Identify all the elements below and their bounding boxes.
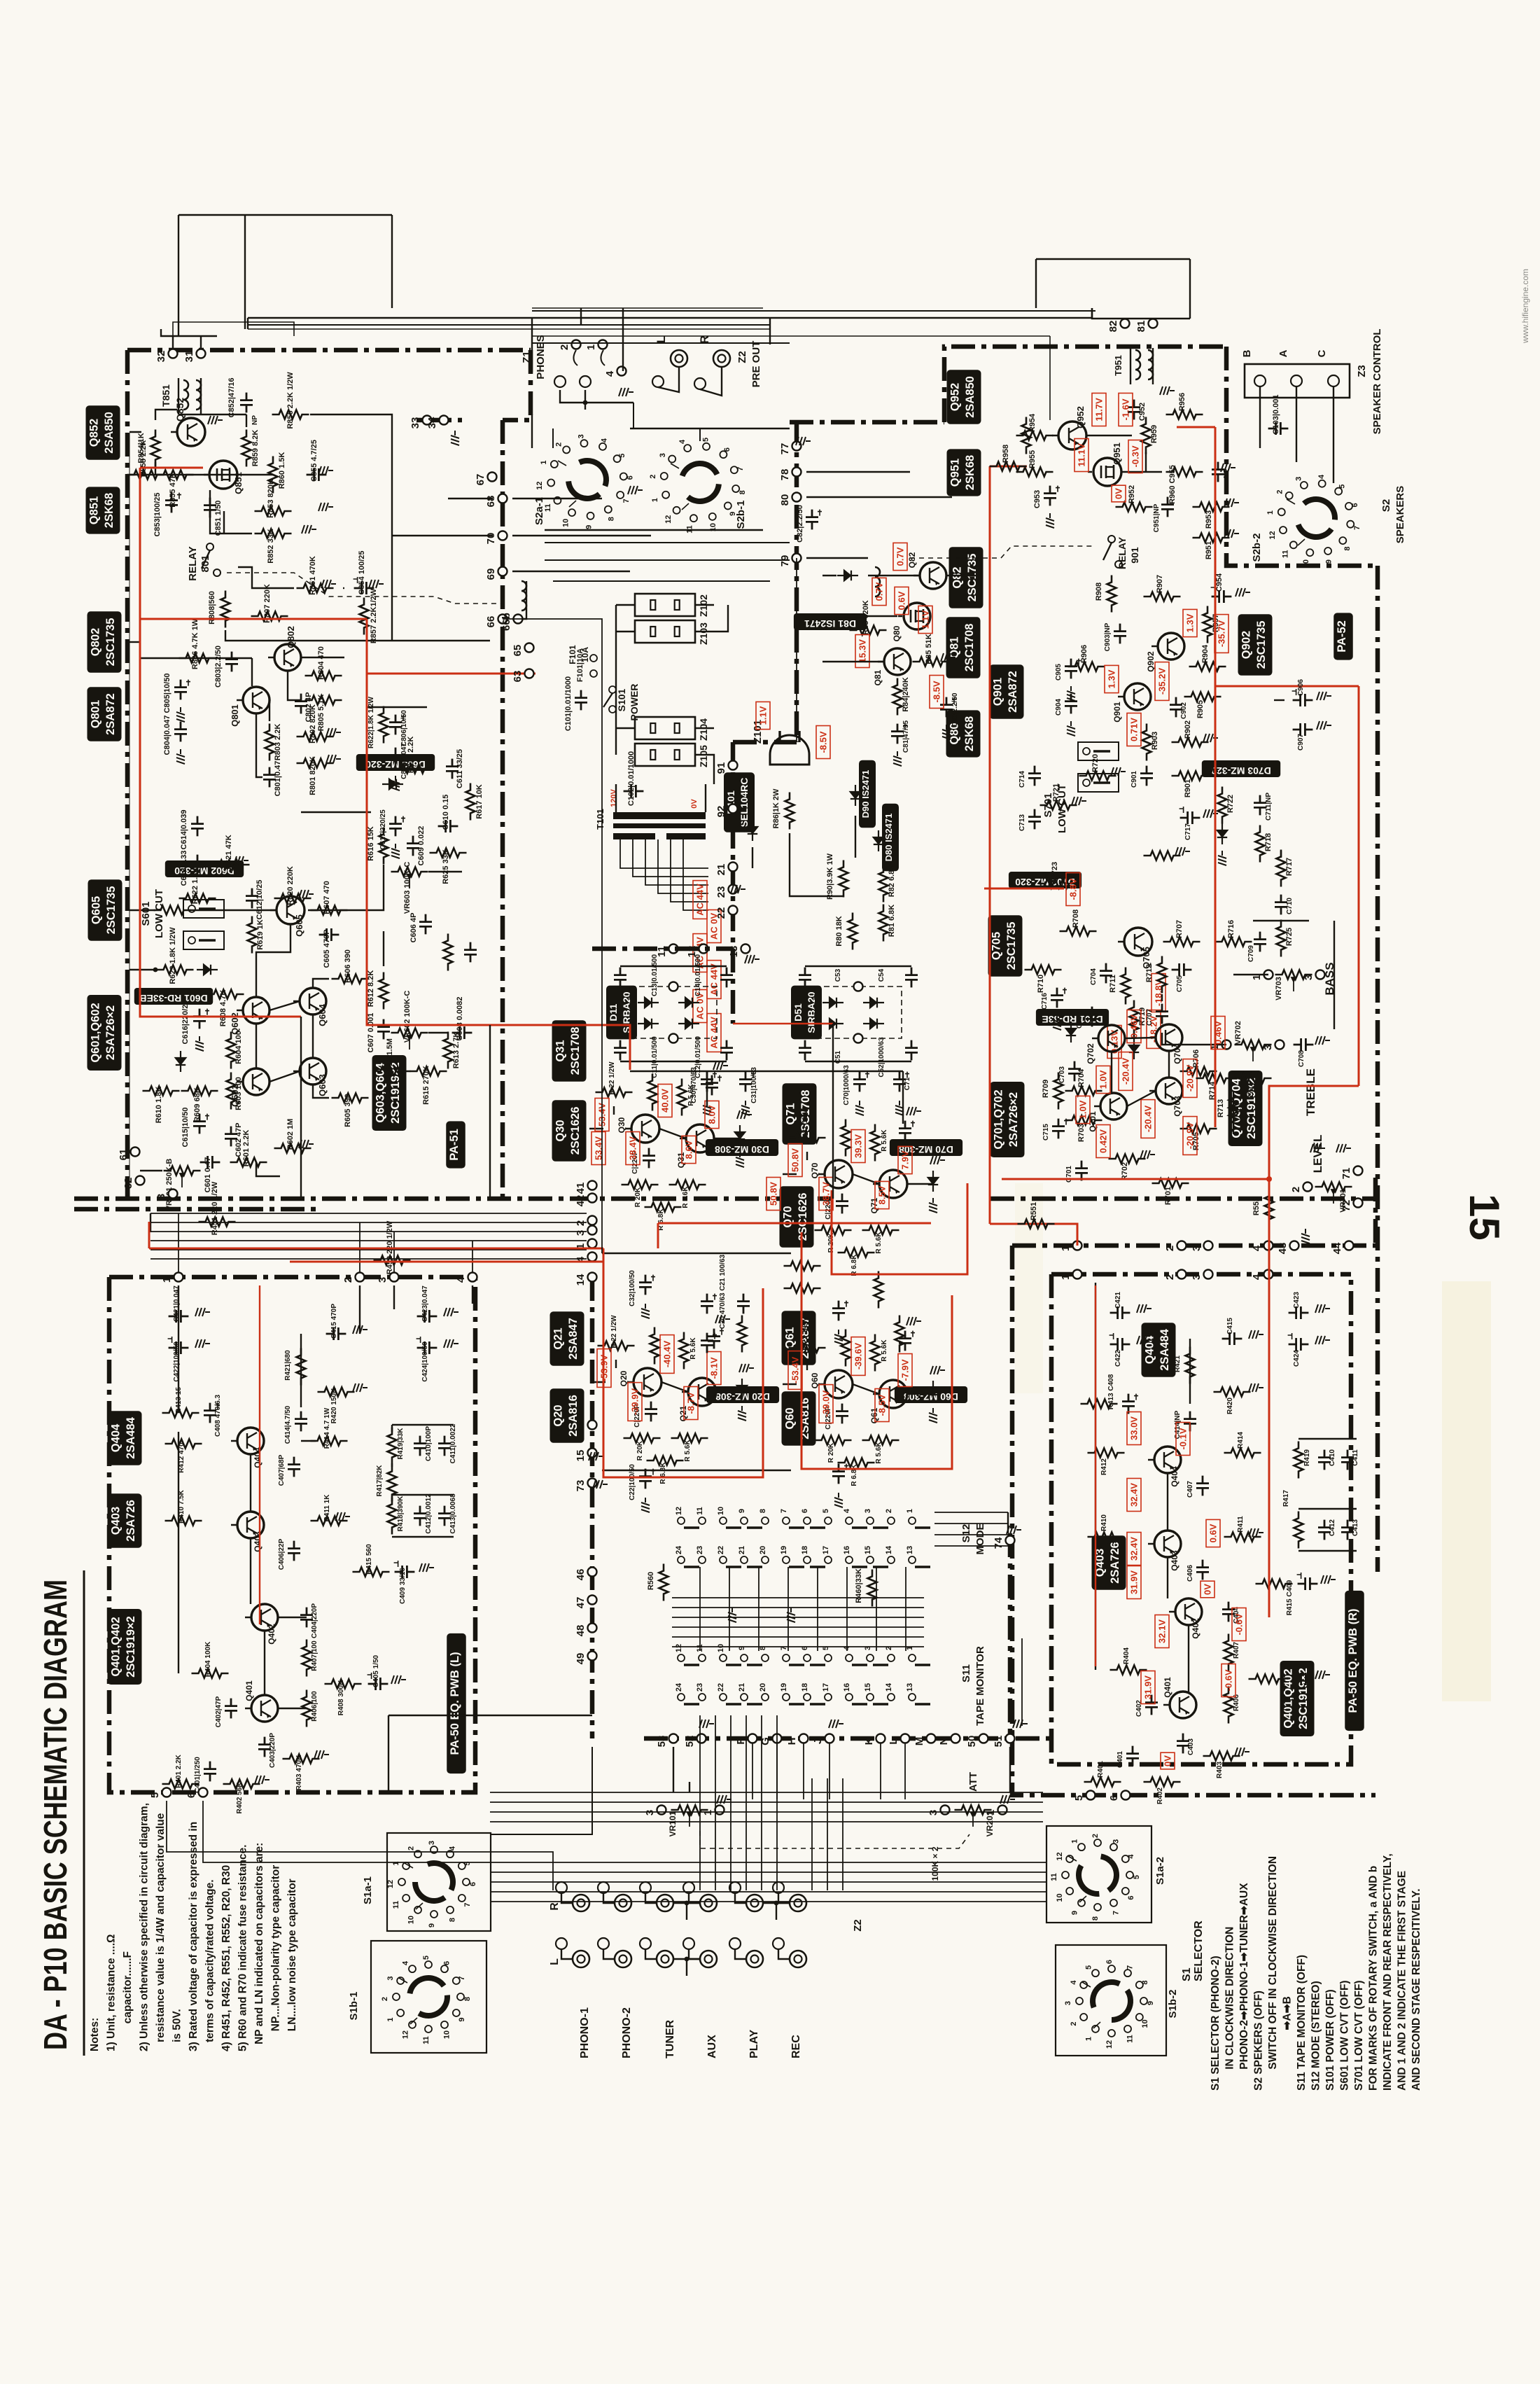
ground (1203, 767, 1218, 776)
svg-text:S12 MODE (STEREO): S12 MODE (STEREO) (1310, 1981, 1322, 2091)
wire bus rotary link2 (491, 1891, 1046, 1892)
resistor R402 56K (223, 1780, 260, 1789)
red trace (733, 1023, 833, 1024)
svg-text:IN CLOCKWISE DIRECTION: IN CLOCKWISE DIRECTION (1224, 1927, 1236, 2070)
bridge AC pin (854, 982, 863, 991)
svg-text:2SC1626: 2SC1626 (797, 1193, 809, 1241)
svg-text:C422: C422 (1114, 1350, 1122, 1367)
svg-text:10: 10 (1056, 1893, 1064, 1902)
capacitor C 0.01/500 (614, 1040, 626, 1061)
capacitor C807 0.047 (389, 748, 402, 768)
capacitor C21 100/63 (701, 1294, 713, 1314)
capacitor C 4.7/50 (899, 1121, 911, 1141)
svg-text:22: 22 (717, 1683, 725, 1692)
capacitor C404 220P (300, 1608, 313, 1628)
svg-text:6: 6 (1127, 1895, 1135, 1899)
capacitor C611 33/25 (446, 759, 458, 779)
wire pin drop (829, 1743, 830, 1799)
wire (343, 587, 344, 589)
wire pin drop (880, 1743, 881, 1799)
svg-text:11: 11 (1126, 2035, 1135, 2043)
svg-text:3: 3 (1112, 1839, 1121, 1843)
svg-text:1: 1 (386, 2017, 395, 2021)
svg-text:TAPE MONITOR: TAPE MONITOR (974, 1646, 986, 1726)
wire left rail R (1095, 1283, 1096, 1670)
svg-text:S2a-1: S2a-1 (533, 497, 545, 525)
svg-text:R956: R956 (1178, 393, 1186, 411)
diode D701 RD-33 zener (1066, 1022, 1076, 1043)
transistor Q801 (243, 687, 269, 713)
svg-text:capacitor......F: capacitor......F (122, 1951, 134, 2023)
svg-text:Q31: Q31 (554, 1040, 566, 1061)
svg-text:11: 11 (1282, 550, 1290, 558)
capacitor C405 1/50 (368, 1678, 388, 1690)
svg-text:-39.9V: -39.9V (630, 1388, 640, 1416)
svg-text:20: 20 (759, 1546, 767, 1554)
svg-text:C607 0.001: C607 0.001 (367, 1013, 375, 1053)
ground (444, 1308, 458, 1316)
resistor R 22 1/2W (598, 1341, 635, 1351)
capacitor C30 470/63 (701, 1072, 713, 1092)
svg-text:R414 4.7 1W: R414 4.7 1W (323, 1407, 331, 1449)
resistor R551 (1018, 1220, 1055, 1229)
ground (906, 1107, 921, 1115)
relay RELAY 801 (206, 543, 213, 550)
ground (728, 1608, 736, 1622)
ground (234, 856, 248, 865)
capacitor C407 (1196, 1476, 1209, 1496)
svg-text:2) Unless otherwise specified: 2) Unless otherwise specified in circuit… (139, 1803, 150, 2051)
PLAY L R jack (746, 1951, 763, 1967)
ground (703, 1101, 711, 1115)
voltage callout 8.6V (682, 1136, 696, 1163)
TUNER/AUX R R jack (657, 1895, 673, 1911)
diode D81 diode (837, 571, 858, 580)
voltage callout -39.0V (819, 1385, 833, 1423)
ground (302, 525, 316, 534)
resistor R702 (1109, 1155, 1146, 1164)
svg-text:R959: R959 (1150, 425, 1158, 443)
svg-text:82: 82 (1107, 321, 1119, 333)
svg-text:C80|2.2/50: C80|2.2/50 (951, 692, 959, 727)
ground (1321, 1575, 1336, 1584)
capacitor C421 (1110, 1306, 1130, 1319)
pin 70 (498, 531, 507, 541)
svg-text:-35.7V: -35.7V (1217, 620, 1227, 648)
wire gate bus (129, 474, 273, 475)
resistor R856 2.2K 1/2W (272, 410, 309, 419)
svg-text:11.1V: 11.1V (1077, 443, 1087, 467)
svg-text:R955: R955 (1028, 450, 1037, 468)
resistor R421 680 (297, 1348, 306, 1386)
svg-text:C851 1/50: C851 1/50 (214, 501, 223, 536)
svg-text:C803|2.2/50: C803|2.2/50 (214, 646, 223, 688)
pin 42 (588, 1194, 597, 1203)
svg-text:32: 32 (155, 351, 167, 363)
voltage callout 0.71V (1127, 713, 1141, 746)
voltage callout AC 44V (707, 1014, 721, 1052)
resistor VR101 (671, 1806, 708, 1815)
ground (739, 1364, 754, 1372)
svg-text:9: 9 (1071, 1911, 1079, 1915)
svg-text:0.7V: 0.7V (895, 547, 906, 566)
svg-text:78: 78 (779, 469, 791, 481)
svg-text:2SC1626: 2SC1626 (569, 1107, 582, 1155)
ground (444, 1339, 458, 1348)
ground (745, 955, 759, 963)
capacitor C 4.7/50 (706, 1075, 718, 1096)
svg-text:C807|0.047: C807|0.047 (400, 743, 408, 779)
svg-text:Q81: Q81 (873, 669, 883, 685)
svg-text:S1: S1 (1181, 1967, 1193, 1981)
resistor R614 1.5M (374, 1067, 411, 1076)
svg-text:R80 18K: R80 18K (835, 916, 843, 946)
svg-text:8: 8 (463, 1997, 472, 2001)
svg-text:31: 31 (183, 351, 195, 363)
wire (200, 336, 202, 349)
svg-text:Q401: Q401 (1163, 1677, 1172, 1698)
transistor Q60 (825, 1370, 853, 1398)
ground (1175, 847, 1190, 856)
svg-text:C424|100/50: C424|100/50 (421, 1341, 429, 1382)
svg-text:10: 10 (717, 1644, 725, 1652)
pin 32 (169, 349, 178, 358)
wire (561, 1893, 573, 1903)
resistor R618 2.2K (395, 765, 432, 774)
wire (167, 1801, 553, 1890)
svg-text:J: J (812, 1738, 824, 1744)
svg-text:8.6V: 8.6V (684, 1140, 694, 1159)
ground (731, 885, 745, 893)
capacitor C405 (1294, 1673, 1314, 1685)
pin F (748, 1734, 757, 1743)
wire (300, 1017, 302, 1199)
pin 3 (1204, 1241, 1213, 1250)
wire bus (150, 1222, 587, 1223)
svg-text:R906: R906 (1080, 645, 1088, 663)
svg-text:-20.9V: -20.9V (1185, 1122, 1196, 1150)
svg-text:R610 1.8K: R610 1.8K (155, 1087, 163, 1124)
ground (699, 1720, 714, 1728)
capacitor C608 0.0082 (452, 1026, 472, 1039)
resistor R606 390 (332, 975, 369, 984)
wire (729, 1567, 730, 1651)
svg-text:43: 43 (1277, 1243, 1289, 1255)
svg-text:R417|82K: R417|82K (376, 1465, 384, 1497)
capacitor C610 0.15 (438, 820, 458, 832)
wire (758, 1567, 759, 1651)
wire bus rotary link (490, 1801, 1043, 1803)
capacitor C410 100P (414, 1436, 426, 1456)
pin 53 (669, 1734, 678, 1743)
wire (428, 1032, 448, 1033)
svg-text:7: 7 (1126, 1965, 1135, 1970)
ground (855, 1101, 864, 1115)
svg-text:22: 22 (715, 907, 727, 919)
wire (672, 1636, 924, 1638)
svg-text:C704: C704 (1090, 968, 1098, 985)
voltage callout -8.5V (930, 676, 944, 709)
wire (689, 1782, 690, 1792)
svg-text:S701 LOW CVT (OFF): S701 LOW CVT (OFF) (1353, 1980, 1365, 2091)
svg-text:1.3V: 1.3V (1185, 613, 1196, 632)
wire (790, 833, 843, 896)
terminal block Z3 (1245, 364, 1350, 398)
svg-text:Z1: Z1 (521, 351, 533, 363)
resistor R604 100 (227, 1032, 236, 1069)
ground (1203, 734, 1218, 742)
resistor R403 (1203, 1752, 1240, 1761)
pin 1 (598, 340, 608, 349)
svg-text:R 20K: R 20K (634, 1187, 642, 1207)
pin 68 (498, 494, 507, 503)
svg-text:11: 11 (422, 2036, 430, 2044)
transistor Q902 (1158, 633, 1184, 660)
voltage callout 50.8V (766, 1178, 780, 1211)
pin 72 (1354, 1199, 1363, 1208)
wire (1274, 699, 1284, 701)
capacitor C801 0.47 (263, 767, 276, 788)
resistor R902 (1172, 738, 1209, 747)
svg-text:R856 2.2K 1/2W: R856 2.2K 1/2W (286, 372, 295, 429)
pin 6 (199, 1788, 208, 1797)
svg-text:Z105: Z105 (698, 745, 709, 767)
label chip Q401,Q402 (1280, 1661, 1315, 1736)
wire (256, 924, 290, 997)
svg-text:0.7V: 0.7V (874, 582, 885, 601)
diode D11 diode (638, 998, 659, 1008)
svg-text:R616 15K: R616 15K (367, 826, 375, 861)
wire (313, 1085, 329, 1098)
diode D603 MZ-320 zener (382, 779, 403, 789)
svg-text:Q402: Q402 (267, 1624, 276, 1645)
wire (806, 471, 910, 473)
label chip Q851 (86, 487, 120, 534)
wire (603, 1893, 615, 1903)
svg-text:-0.6V: -0.6V (1234, 1613, 1245, 1635)
svg-text:D30 MZ-308: D30 MZ-308 (715, 1144, 769, 1155)
capacitor C403 (1177, 1734, 1189, 1754)
voltage callout -8.8V (1066, 873, 1080, 906)
wire (706, 1071, 708, 1106)
wire (210, 490, 252, 534)
svg-text:R82 6.8K: R82 6.8K (888, 865, 896, 898)
svg-text:C415 470P: C415 470P (330, 1304, 338, 1339)
svg-text:2SK68: 2SK68 (103, 493, 115, 528)
svg-text:63: 63 (512, 671, 524, 683)
resistor R84 240K (893, 678, 902, 716)
svg-text:42: 42 (575, 1195, 587, 1207)
wire (256, 714, 262, 777)
svg-text:Q704: Q704 (1172, 1043, 1182, 1064)
voltage callout 0.7V (872, 578, 886, 605)
svg-text:3: 3 (1191, 1274, 1203, 1280)
svg-text:C14|0.01/500: C14|0.01/500 (694, 954, 702, 997)
wire (752, 847, 753, 868)
Z3 pin 2 (1291, 375, 1302, 386)
voltage callout AC 0V (707, 910, 721, 943)
svg-text:LEVEL: LEVEL (1311, 1135, 1324, 1173)
pin 5 (162, 1788, 171, 1797)
voltage callout 8.5V (875, 1181, 889, 1208)
resistor R 1K (650, 1327, 659, 1365)
wire (552, 428, 554, 448)
wire bus rotary link (490, 1811, 1043, 1813)
capacitor C 0.01/500 (905, 968, 918, 988)
diode D zener MZ-308 (735, 1125, 745, 1146)
phones jack tip (580, 376, 591, 387)
svg-text:R420: R420 (1226, 1397, 1234, 1414)
pin 1 (1222, 1040, 1231, 1050)
voltage callout 53.4V (595, 1099, 609, 1131)
wire (796, 558, 797, 742)
svg-text:801: 801 (199, 555, 211, 572)
transistor Q71 (879, 1170, 907, 1198)
FET Q851 (209, 461, 237, 489)
resistor R 6.8K (645, 1203, 682, 1212)
pin 3 (1316, 970, 1325, 980)
pin N (951, 1734, 960, 1743)
svg-text:1.0V: 1.0V (1098, 1070, 1109, 1089)
label chip Q703,Q704 (1228, 1071, 1263, 1146)
wire (827, 1778, 828, 1890)
capacitor C802 4P (295, 694, 307, 714)
svg-text:100K × 2: 100K × 2 (930, 1846, 940, 1881)
svg-text:D51: D51 (792, 1003, 804, 1022)
resistor R407 100 (302, 1640, 311, 1677)
svg-text:0V: 0V (1163, 1755, 1173, 1766)
svg-text:1: 1 (1060, 1274, 1072, 1280)
ground (593, 1480, 608, 1489)
svg-text:C610 0.15: C610 0.15 (442, 795, 450, 830)
rotary S1a-2 (1062, 1839, 1133, 1911)
svg-text:12: 12 (675, 1644, 683, 1652)
svg-text:5: 5 (422, 1956, 430, 1960)
svg-text:5: 5 (1073, 1795, 1085, 1801)
svg-text:R702: R702 (1121, 1162, 1129, 1180)
wire bus drop (393, 1232, 395, 1273)
voltage callout -8.7V (684, 1387, 698, 1420)
svg-text:15: 15 (575, 1450, 587, 1462)
svg-text:Q404: Q404 (1170, 1466, 1179, 1487)
svg-text:R408 300K: R408 300K (337, 1680, 345, 1715)
resistor R706 (1180, 1067, 1217, 1076)
wire (1121, 471, 1162, 473)
svg-text:T851: T851 (160, 384, 171, 407)
red trace loop top (1215, 685, 1359, 688)
red trace loop right (1358, 686, 1360, 1086)
voltage callout -1.6V (1119, 393, 1133, 426)
ground (314, 1750, 329, 1759)
capacitor C907 (1293, 723, 1313, 736)
svg-text:49: 49 (575, 1653, 587, 1665)
svg-text:is 50V.: is 50V. (171, 2009, 183, 2042)
switch S11 row a (678, 1654, 685, 1661)
wire inter-rotary (630, 428, 790, 429)
label chip D60 MZ-308 (895, 1386, 967, 1403)
svg-text:R952: R952 (1128, 485, 1136, 503)
svg-text:C415: C415 (1226, 1318, 1234, 1334)
capacitor C70 1000/63 (853, 1072, 866, 1092)
label chip Q60 (782, 1391, 816, 1445)
svg-text:R608 4.7K: R608 4.7K (219, 990, 227, 1027)
resistor R404 100K (192, 1669, 229, 1678)
pin 63 (525, 669, 534, 678)
red trace R551 (990, 1224, 1077, 1246)
svg-text:C406|22P: C406|22P (278, 1538, 286, 1570)
ground (176, 707, 185, 722)
wire (907, 1183, 933, 1185)
rotary S1b-1 (393, 1961, 464, 2033)
svg-text:R81 6.8K: R81 6.8K (888, 905, 896, 937)
svg-text:92: 92 (715, 806, 727, 818)
transistor Q404 (1154, 1447, 1181, 1473)
resistor R617 10K (466, 783, 475, 821)
svg-text:Q20: Q20 (619, 1370, 629, 1386)
svg-text:R402 56K: R402 56K (236, 1782, 244, 1814)
svg-text:4: 4 (455, 1276, 467, 1283)
transistor Q30 (631, 1115, 659, 1143)
svg-text:R 6.8K: R 6.8K (659, 1462, 667, 1484)
wire (244, 215, 246, 329)
resistor R 22 1/2W (789, 1344, 826, 1353)
wire (1298, 1550, 1357, 1552)
svg-text:33.0V: 33.0V (1129, 1416, 1140, 1440)
svg-text:2SK68: 2SK68 (964, 455, 976, 490)
resistor R860 1.5K (269, 456, 278, 494)
capacitor C903 NP (1114, 624, 1126, 644)
wire (1296, 386, 1297, 462)
PHONO-2 R R jack (615, 1895, 631, 1911)
svg-text:3: 3 (155, 1194, 167, 1199)
pin 33 (423, 416, 432, 425)
resistor R615 270K (410, 1067, 447, 1076)
wire (673, 1747, 674, 1792)
resistor VR601 250K-B (164, 1166, 201, 1176)
svg-text:Q901: Q901 (1112, 702, 1122, 723)
wire (532, 335, 1050, 337)
wire (778, 1893, 790, 1903)
voltage callout -39.6V (851, 1337, 865, 1376)
transistor Q21 (688, 1378, 716, 1406)
label chip Q80 (946, 710, 981, 757)
svg-text:-0.1V: -0.1V (1178, 1428, 1189, 1449)
red trace level feed (1002, 1178, 1269, 1180)
resistor R712 (1158, 956, 1167, 994)
wire (822, 661, 884, 662)
svg-text:C405 1/50: C405 1/50 (372, 1654, 380, 1687)
resistor R701 (1152, 1179, 1189, 1188)
svg-text:-35.2V: -35.2V (1157, 668, 1168, 695)
transistor Q852 (177, 418, 205, 446)
border power bottom jog (592, 947, 733, 951)
resistor R956 (1166, 410, 1203, 419)
resistor R605 390 (332, 1094, 369, 1103)
svg-text:PRE OUT: PRE OUT (750, 341, 762, 388)
svg-text:R715: R715 (1247, 1082, 1255, 1100)
svg-text:Q951: Q951 (1112, 442, 1122, 465)
svg-text:81: 81 (1135, 321, 1147, 333)
resistor R 5.6K (862, 1436, 899, 1445)
svg-text:R960 C955: R960 C955 (1168, 465, 1177, 504)
capacitor C 0.01/500 (905, 1040, 918, 1061)
wire (173, 322, 294, 336)
TUNER/AUX R shield (683, 1882, 694, 1893)
svg-text:1: 1 (585, 344, 597, 350)
svg-text:5: 5 (618, 454, 626, 458)
svg-text:Q70: Q70 (810, 1162, 820, 1178)
diode D90 IS2471 (850, 785, 860, 806)
